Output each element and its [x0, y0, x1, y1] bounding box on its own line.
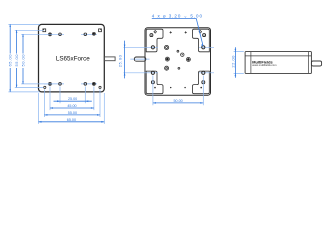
rotated dim texts 65.00 55.00 50.00	[8, 54, 26, 67]
side view shaft	[311, 61, 321, 66]
bottom dimension 50.00 of top view	[153, 76, 203, 106]
svg-text:45.00: 45.00	[67, 104, 76, 108]
svg-text:65.00: 65.00	[67, 118, 76, 122]
bottom-right pocket	[193, 71, 210, 94]
ear holes (4 x counterbore)	[151, 46, 154, 49]
svg-text:www.multifields.com: www.multifields.com	[252, 63, 277, 67]
ear hole centerlines	[124, 47, 215, 73]
svg-text:25.00: 25.00	[68, 97, 77, 101]
hole row top: filled dowel holes and open holes	[49, 33, 51, 35]
bottom dimension extension lines	[39, 87, 105, 124]
dimension 55.00	[44, 114, 100, 116]
front view plate LS65xForce	[39, 24, 105, 92]
corner screw squares top	[43, 29, 46, 32]
pocket diamonds/dots	[154, 31, 157, 34]
dimension 45.00	[50, 107, 94, 109]
svg-text:4 x ⌀ 3.20 ⌄ 5.00: 4 x ⌀ 3.20 ⌄ 5.00	[152, 14, 203, 19]
front view centerlines	[44, 34, 97, 84]
vertical dimension 25.00 between ear rows	[124, 41, 126, 79]
svg-text:22.00: 22.00	[230, 55, 235, 68]
drive shaft of top view	[134, 57, 146, 61]
svg-text:55.00: 55.00	[14, 54, 19, 67]
center hole cluster	[165, 45, 169, 49]
dimension 25.00	[54, 100, 92, 102]
svg-text:LS65xForce: LS65xForce	[56, 56, 90, 63]
top view plate	[145, 28, 211, 96]
small cross marks	[170, 31, 187, 33]
left dimension extension lines	[8, 24, 53, 92]
connector tab right side of front view	[104, 57, 115, 61]
dimension 65.00 vertical	[10, 24, 23, 92]
svg-text:50.00: 50.00	[173, 99, 182, 103]
svg-text:65.00: 65.00	[8, 54, 13, 67]
dimension 65.00	[39, 121, 105, 123]
bottom-left pocket	[146, 71, 163, 94]
shaft centerline	[130, 58, 149, 60]
side view inner lines	[245, 52, 311, 74]
corner holes bottom	[44, 86, 46, 88]
dimension 22.00 side view	[234, 52, 244, 74]
side view body	[245, 52, 311, 74]
top-right pocket	[193, 29, 210, 52]
pocket screws	[150, 34, 153, 37]
top-left pocket	[146, 29, 163, 52]
hole row bottom	[49, 83, 51, 85]
svg-text:55.00: 55.00	[68, 111, 77, 115]
svg-text:25.00: 25.00	[118, 54, 123, 67]
svg-text:50.00: 50.00	[20, 54, 25, 67]
